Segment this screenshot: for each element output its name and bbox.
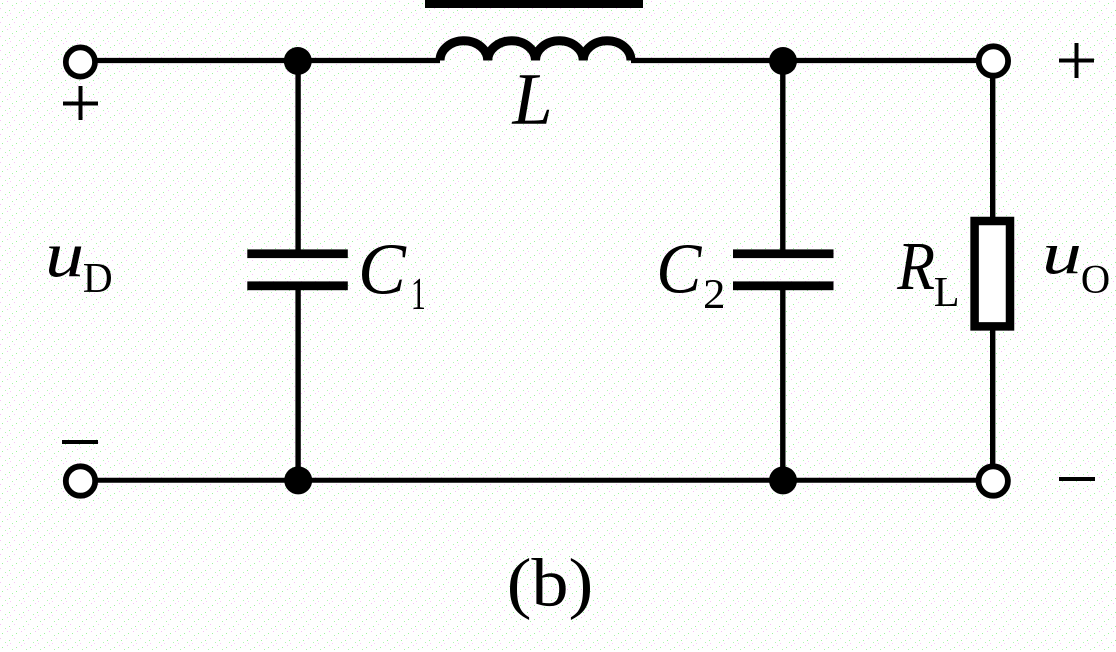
capacitor C1 top plate: [247, 249, 347, 258]
capacitor C2 bottom lead wire: [780, 289, 785, 480]
node junction dot (bottom, C1): [284, 466, 312, 494]
inductor L: [440, 41, 631, 61]
label u_D: [49, 247, 81, 278]
caption (b): [510, 558, 590, 620]
wire: top rail right segment: [631, 58, 980, 63]
plus sign (output polarity): [1059, 43, 1094, 78]
node junction dot (top, C2): [769, 47, 797, 75]
resistor RL top lead wire: [990, 77, 995, 222]
minus sign (output polarity): [1059, 477, 1095, 481]
minus sign (input polarity): [62, 440, 98, 444]
capacitor C2 top lead wire: [780, 61, 785, 251]
top crop bar: [425, 0, 643, 8]
terminal T2 (output +, top-right): [979, 46, 1008, 75]
node junction dot (bottom, C2): [769, 466, 797, 494]
resistor RL body: [975, 221, 1010, 326]
capacitor C1 top lead wire: [295, 61, 300, 251]
terminal T1 (input +, top-left): [66, 47, 95, 76]
capacitor C1 bottom lead wire: [295, 289, 300, 480]
capacitor C2 bottom plate: [733, 281, 834, 290]
label C2: [660, 245, 702, 293]
node junction dot (top, C1): [284, 47, 312, 75]
label u_O: [1046, 246, 1079, 274]
label RL: [897, 244, 934, 289]
resistor RL bottom lead wire: [990, 330, 995, 465]
label C1: [362, 245, 407, 294]
plus sign (input polarity): [63, 86, 98, 120]
wire: bottom rail: [95, 478, 980, 483]
capacitor C2 top plate: [733, 249, 834, 258]
terminal T3 (input -, bottom-left): [66, 466, 95, 495]
label L: [512, 75, 550, 123]
capacitor C1 bottom plate: [247, 281, 347, 290]
wire: top rail left segment: [95, 58, 440, 63]
terminal T4 (output -, bottom-right): [979, 466, 1008, 495]
